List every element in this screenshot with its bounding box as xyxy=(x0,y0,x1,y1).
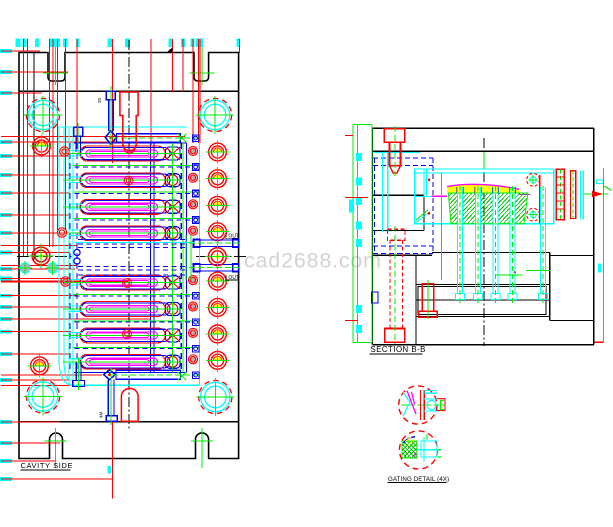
svg-text:CAVITY SIDE: CAVITY SIDE xyxy=(21,461,74,470)
svg-text:SECTION B-B: SECTION B-B xyxy=(371,345,426,354)
svg-text:cad2688.com: cad2688.com xyxy=(244,249,382,273)
svg-text:20: 20 xyxy=(97,97,102,103)
svg-text:4M: 4M xyxy=(99,411,104,418)
